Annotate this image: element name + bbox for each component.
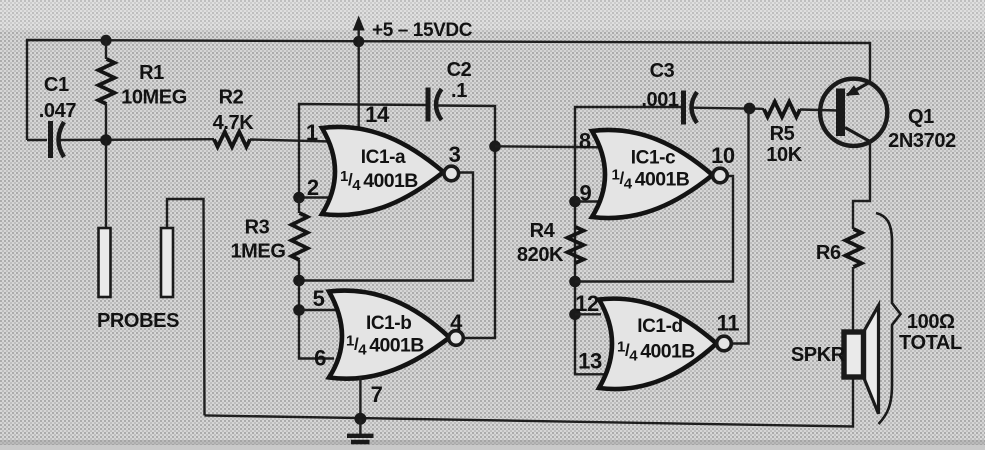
node R3 bottom <box>293 275 305 287</box>
resistor R2 <box>214 132 250 147</box>
svg-text:.047: .047 <box>39 100 77 122</box>
svg-text:11: 11 <box>717 311 740 336</box>
wire R5 to Q1 base <box>800 110 838 111</box>
probe 1 <box>99 228 111 297</box>
wire pin 7 <box>359 377 361 419</box>
svg-text:1/44001B: 1/44001B <box>617 339 695 365</box>
wire power rail <box>27 40 870 140</box>
node pin 9 <box>569 196 581 208</box>
gate IC1-d <box>599 299 717 389</box>
svg-text:.1: .1 <box>451 80 467 102</box>
wire R2 to pin 1 <box>250 140 331 142</box>
power arrow <box>353 16 365 42</box>
svg-text:R4: R4 <box>530 220 556 242</box>
svg-text:IC1-d: IC1-d <box>637 316 683 337</box>
capacitor C1 <box>51 121 65 158</box>
node pin 5 <box>293 304 305 316</box>
svg-text:14: 14 <box>365 102 390 127</box>
wire gate-c input vertical <box>575 147 606 374</box>
svg-text:8: 8 <box>579 129 591 154</box>
wire feedback gate-c out <box>575 176 733 282</box>
svg-text:13: 13 <box>578 349 602 374</box>
node ground junction <box>354 413 366 425</box>
node pin 12 <box>569 309 581 321</box>
wire pin 14 <box>358 42 360 128</box>
brace 100 ohm total <box>876 213 901 424</box>
wire pin 5 stub <box>299 309 336 311</box>
svg-text:R6: R6 <box>816 242 841 264</box>
svg-text:4: 4 <box>450 310 463 335</box>
node R4 bottom <box>569 276 581 288</box>
wire C3 to R5 <box>693 108 764 109</box>
gate IC1-a <box>322 127 444 215</box>
speaker SPKR <box>844 306 879 414</box>
svg-text:1: 1 <box>306 120 318 145</box>
svg-text:R3: R3 <box>245 217 270 239</box>
probe 2 <box>161 228 173 297</box>
svg-text:100Ω: 100Ω <box>907 311 955 333</box>
wire to pins 5/6 <box>299 281 334 359</box>
wire pin 2 stub <box>299 196 332 198</box>
svg-text:C2: C2 <box>447 59 472 81</box>
node C3/R5/pin11 <box>744 103 756 115</box>
gate IC1-c <box>592 130 713 218</box>
svg-text:IC1-b: IC1-b <box>366 313 412 334</box>
resistor R1 <box>105 40 107 59</box>
svg-text:IC1-c: IC1-c <box>631 148 676 169</box>
svg-text:4.7K: 4.7K <box>213 112 255 134</box>
svg-text:.001: .001 <box>641 89 679 111</box>
svg-text:C3: C3 <box>650 60 675 82</box>
svg-text:5: 5 <box>313 286 325 311</box>
resistor R5 <box>764 102 800 117</box>
svg-text:12: 12 <box>575 291 599 316</box>
svg-text:1/44001B: 1/44001B <box>340 168 418 194</box>
svg-text:1/44001B: 1/44001B <box>346 333 424 359</box>
svg-text:1/44001B: 1/44001B <box>612 167 690 193</box>
resistor R4 <box>568 227 584 263</box>
wire gate-a left vertical and C2 line <box>299 104 428 198</box>
svg-text:+5 – 15VDC: +5 – 15VDC <box>372 20 473 41</box>
resistor R6 <box>846 229 862 267</box>
svg-text:C1: C1 <box>44 74 69 96</box>
svg-text:R2: R2 <box>219 87 244 109</box>
wire C3 line left <box>575 107 681 147</box>
svg-text:820K: 820K <box>517 244 564 266</box>
wire C1 to R2 <box>60 138 214 141</box>
node C2/pin8 junction <box>489 141 501 153</box>
svg-text:PROBES: PROBES <box>97 310 179 332</box>
capacitor C2 <box>428 88 442 122</box>
node pin 2 <box>293 192 305 204</box>
svg-text:6: 6 <box>314 346 326 371</box>
svg-text:SPKR: SPKR <box>791 344 846 366</box>
svg-text:IC1-a: IC1-a <box>361 147 406 168</box>
svg-text:Q1: Q1 <box>908 106 934 128</box>
node R1 top <box>100 35 111 46</box>
wire bottom rail <box>205 375 854 427</box>
wire gate-d out riser <box>731 108 749 343</box>
transistor Q1 <box>820 79 887 146</box>
wire pin 12 stub <box>575 313 601 315</box>
node C1/R1/R2 junction <box>100 134 112 146</box>
svg-text:10: 10 <box>711 143 735 168</box>
wire collector down to R6 <box>853 142 870 230</box>
wire pin 9 stub <box>575 200 604 202</box>
capacitor C3 <box>684 91 698 125</box>
svg-text:10K: 10K <box>766 144 802 166</box>
ground <box>347 419 374 442</box>
svg-text:TOTAL: TOTAL <box>899 332 962 354</box>
wire probe 1 lead <box>105 140 107 229</box>
svg-text:R1: R1 <box>139 62 164 84</box>
svg-text:2: 2 <box>307 175 319 200</box>
wire feedback gate-a out <box>299 173 473 281</box>
wire junction to pin 8 <box>495 146 600 147</box>
node power arrow junction <box>353 36 364 47</box>
svg-text:1MEG: 1MEG <box>230 241 285 263</box>
wire probe 2 lead <box>167 199 205 415</box>
svg-text:R5: R5 <box>770 123 795 145</box>
svg-text:7: 7 <box>371 382 383 407</box>
resistor R3 <box>298 198 300 214</box>
gate IC1-b <box>329 291 450 379</box>
svg-text:2N3702: 2N3702 <box>888 130 956 152</box>
svg-text:10MEG: 10MEG <box>121 87 187 109</box>
svg-text:3: 3 <box>449 142 461 167</box>
wire C2 to pin4 riser <box>437 106 495 339</box>
wire C1 left leg <box>27 139 47 141</box>
svg-text:9: 9 <box>579 181 591 206</box>
